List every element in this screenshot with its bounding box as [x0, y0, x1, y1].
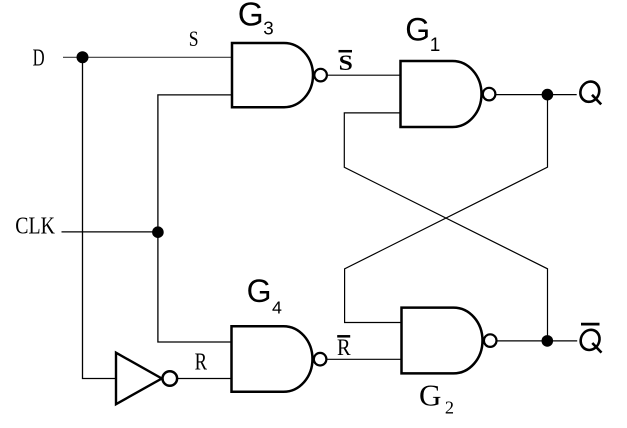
wire G1 output to node Q — [496, 94, 577, 96]
svg-text:4: 4 — [272, 297, 282, 317]
nand gate G1 body — [401, 61, 482, 127]
wire feedback Q-bar to G1 bottom input (crossover diagonal) — [344, 113, 547, 341]
svg-text:G: G — [238, 0, 264, 33]
overbar of R-bar — [337, 335, 350, 338]
svg-text:G: G — [419, 378, 441, 413]
svg-text:3: 3 — [263, 18, 273, 39]
overbar of S-bar — [339, 50, 353, 53]
label Q-bar output — [580, 330, 602, 353]
wire G2 output to node Q-bar — [497, 340, 577, 342]
node CLK junction — [152, 226, 164, 238]
nand gate G4 output bubble — [314, 353, 327, 366]
node D junction — [77, 51, 89, 63]
inverter output bubble — [163, 371, 178, 386]
svg-text:R: R — [337, 335, 351, 360]
nand gate G3 output bubble — [314, 69, 327, 82]
svg-text:D: D — [33, 46, 45, 72]
svg-text:2: 2 — [445, 398, 454, 418]
wire CLK input lead — [62, 231, 158, 233]
svg-text:G: G — [247, 273, 272, 309]
wire inverter output R to G4 bottom input — [176, 378, 231, 380]
nand gate G4 body — [232, 326, 313, 392]
wire CLK riser to G3 bottom input and G4 top input — [158, 95, 232, 342]
svg-text:1: 1 — [430, 35, 441, 56]
nand gate G3 body — [232, 43, 313, 107]
svg-text:S: S — [189, 26, 199, 51]
wire feedback Q to G2 top input (crossover diagonal) — [345, 95, 548, 323]
svg-text:CLK: CLK — [15, 214, 55, 240]
nand gate G2 output bubble — [484, 334, 497, 347]
wire G3 output S-bar to G1 top input — [328, 74, 401, 76]
nand gate G2 body — [402, 308, 483, 374]
node Q-bar junction — [542, 335, 554, 347]
wire G4 output R-bar to G2 bottom input — [327, 358, 402, 360]
label Q output — [580, 82, 602, 105]
node Q junction — [542, 89, 554, 101]
svg-text:G: G — [405, 12, 430, 48]
inverter triangle (CLK inverter) — [116, 353, 162, 405]
wire D input lead to gate G3 top input (net S) — [63, 56, 232, 58]
svg-text:S: S — [339, 50, 353, 75]
nand gate G1 output bubble — [483, 88, 496, 101]
svg-text:R: R — [195, 349, 207, 375]
wire D vertical riser to inverter input — [83, 57, 117, 378]
overbar of Q-bar — [581, 323, 600, 326]
